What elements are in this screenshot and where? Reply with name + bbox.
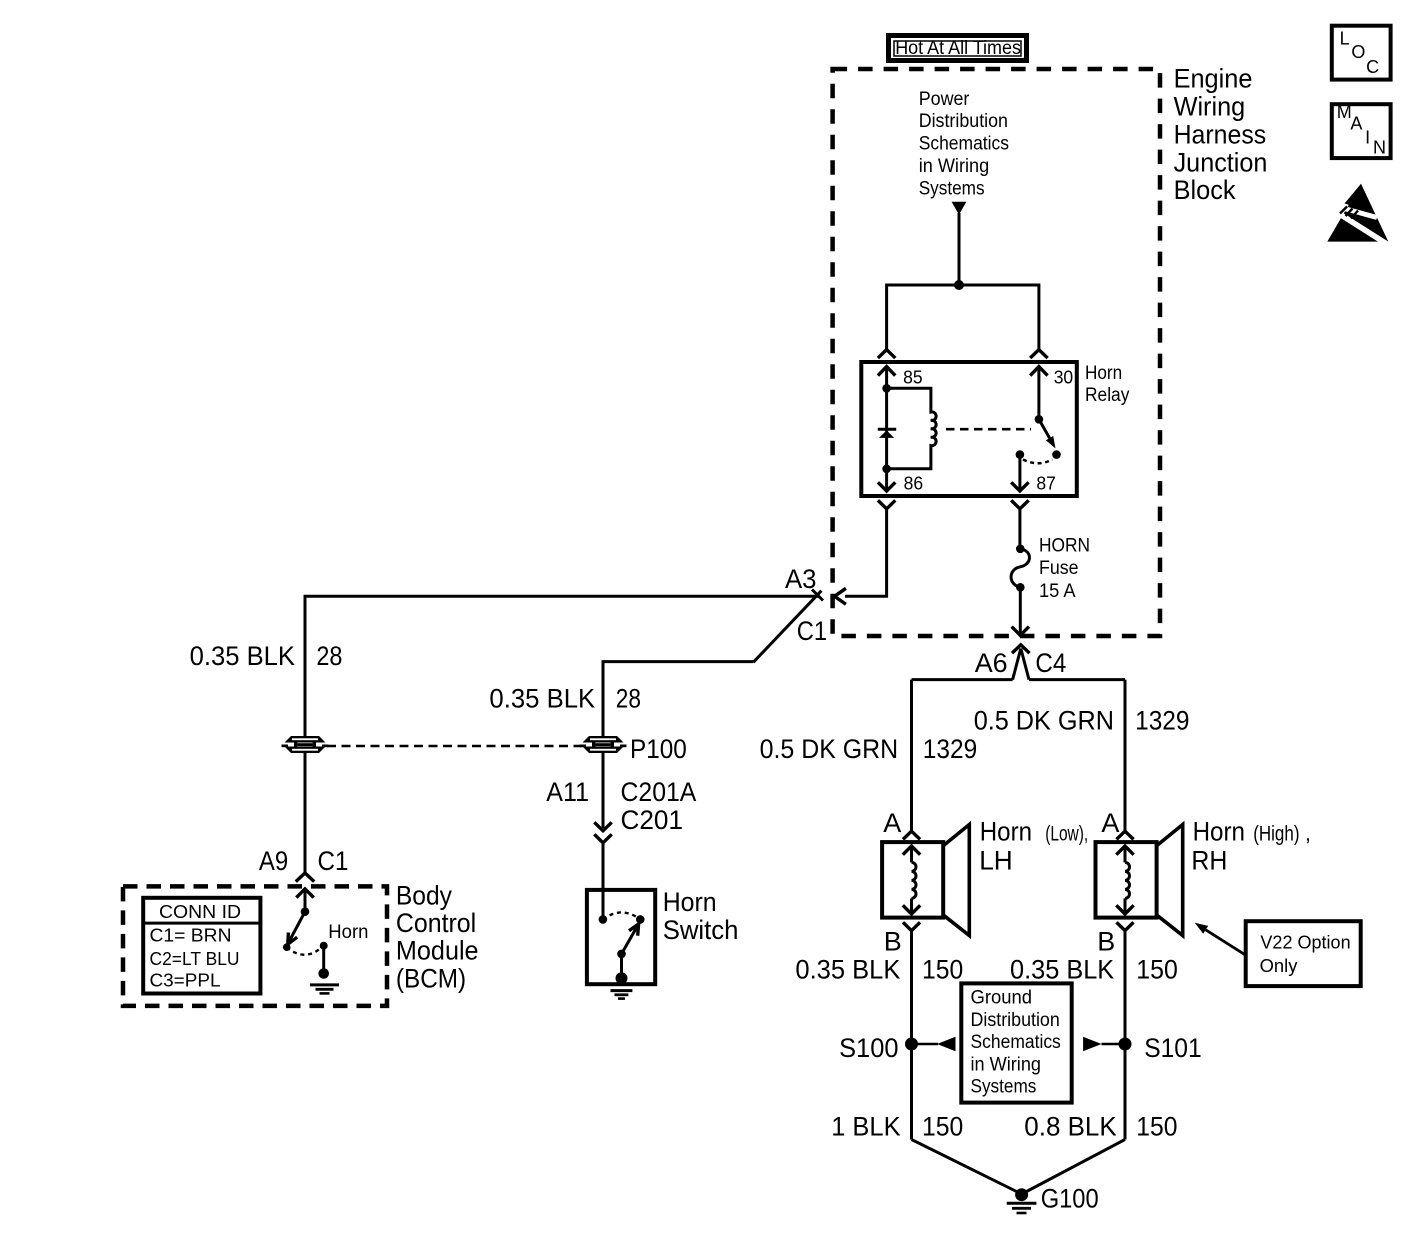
svg-text:L: L (1340, 28, 1350, 48)
svg-text:A6: A6 (975, 648, 1008, 678)
svg-text:Control: Control (396, 908, 476, 938)
svg-text:Fuse: Fuse (1039, 558, 1079, 579)
svg-text:A: A (1350, 114, 1362, 134)
svg-text:85: 85 (903, 368, 923, 388)
svg-text:(BCM): (BCM) (396, 963, 466, 993)
svg-text:A3: A3 (785, 564, 817, 594)
svg-text:G100: G100 (1041, 1184, 1099, 1214)
svg-text:Horn: Horn (663, 887, 717, 917)
svg-text:Engine: Engine (1174, 64, 1253, 94)
svg-text:C1= BRN: C1= BRN (150, 926, 232, 946)
svg-text:Relay: Relay (1085, 385, 1130, 406)
svg-text:Only: Only (1260, 956, 1298, 976)
svg-text:Horn: Horn (980, 817, 1032, 847)
svg-text:Ground: Ground (971, 988, 1033, 1009)
svg-text:15 A: 15 A (1039, 581, 1076, 602)
svg-text:1 BLK: 1 BLK (831, 1111, 900, 1141)
svg-text:S100: S100 (839, 1033, 898, 1063)
svg-text:150: 150 (922, 1111, 963, 1141)
svg-text:Power: Power (919, 89, 970, 110)
svg-text:I: I (1365, 127, 1370, 147)
svg-text:C1: C1 (318, 846, 349, 876)
svg-text:in Wiring: in Wiring (971, 1054, 1042, 1075)
svg-text:86: 86 (904, 473, 924, 493)
svg-text:Schematics: Schematics (971, 1032, 1061, 1053)
svg-text:in Wiring: in Wiring (919, 156, 990, 177)
svg-text:Hot At All Times: Hot At All Times (895, 38, 1021, 59)
svg-text:150: 150 (1136, 1111, 1177, 1141)
svg-text:V22 Option: V22 Option (1260, 932, 1350, 952)
svg-text:150: 150 (922, 954, 963, 984)
svg-text:1329: 1329 (923, 734, 977, 764)
svg-text:Distribution: Distribution (971, 1010, 1060, 1031)
svg-text:CONN ID: CONN ID (159, 902, 241, 922)
svg-text:Horn: Horn (1085, 363, 1122, 384)
svg-text:A9: A9 (259, 846, 288, 876)
svg-text:Block: Block (1174, 175, 1236, 205)
svg-text:0.35 BLK: 0.35 BLK (489, 683, 595, 713)
svg-text:LH: LH (979, 846, 1013, 876)
svg-text:,: , (1305, 823, 1311, 846)
svg-text:Systems: Systems (971, 1077, 1037, 1098)
svg-text:1329: 1329 (1135, 706, 1189, 736)
svg-text:C201A: C201A (621, 777, 697, 807)
svg-text:C3=PPL: C3=PPL (150, 971, 221, 991)
svg-text:C1: C1 (797, 616, 827, 646)
svg-text:0.35 BLK: 0.35 BLK (795, 954, 900, 984)
svg-text:Schematics: Schematics (919, 133, 1009, 154)
svg-text:HORN: HORN (1039, 536, 1090, 557)
svg-text:0.5 DK GRN: 0.5 DK GRN (760, 734, 899, 764)
svg-text:28: 28 (316, 641, 342, 671)
svg-text:28: 28 (616, 683, 641, 713)
svg-text:Module: Module (396, 936, 479, 966)
svg-text:S101: S101 (1144, 1033, 1202, 1063)
svg-text:A: A (1101, 808, 1119, 838)
svg-text:A: A (883, 808, 901, 838)
svg-text:B: B (1097, 927, 1115, 957)
svg-text:0.5 DK GRN: 0.5 DK GRN (974, 706, 1114, 736)
svg-text:C: C (1366, 57, 1379, 77)
svg-text:C2=LT BLU: C2=LT BLU (150, 949, 240, 969)
svg-text:0.35 BLK: 0.35 BLK (190, 641, 295, 671)
svg-text:30: 30 (1054, 368, 1074, 388)
svg-text:Systems: Systems (919, 178, 985, 199)
svg-text:O: O (1351, 42, 1365, 62)
svg-text:(Low),: (Low), (1045, 823, 1088, 846)
svg-text:0.8 BLK: 0.8 BLK (1024, 1111, 1116, 1141)
svg-text:C201: C201 (621, 805, 684, 835)
svg-text:(High): (High) (1253, 823, 1299, 846)
svg-text:B: B (884, 927, 902, 957)
svg-text:Distribution: Distribution (919, 111, 1008, 132)
svg-text:P100: P100 (630, 734, 687, 764)
svg-text:C4: C4 (1035, 648, 1066, 678)
svg-text:Switch: Switch (663, 915, 739, 945)
svg-text:0.35 BLK: 0.35 BLK (1010, 954, 1114, 984)
svg-text:150: 150 (1136, 954, 1178, 984)
svg-text:Horn: Horn (1193, 817, 1245, 847)
svg-text:A11: A11 (546, 777, 589, 807)
svg-text:N: N (1373, 137, 1386, 157)
svg-text:Body: Body (396, 881, 453, 911)
svg-text:Wiring: Wiring (1174, 92, 1246, 122)
svg-text:Junction: Junction (1174, 147, 1268, 177)
svg-text:Horn: Horn (328, 922, 368, 943)
svg-text:RH: RH (1191, 846, 1227, 876)
svg-text:Harness: Harness (1174, 119, 1267, 149)
svg-text:87: 87 (1036, 473, 1056, 493)
